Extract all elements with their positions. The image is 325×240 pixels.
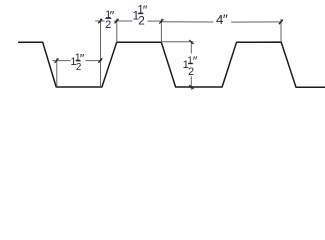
- top dimension line 1/2" segment: [95, 20, 104, 22]
- top dimension line between labels: [114, 20, 132, 22]
- tick at (116.8,21): [115, 19, 119, 24]
- extension line at x=161.4 (rib right corner): [160, 19, 162, 43]
- valley dimension line left stub: [52, 60, 70, 62]
- deck profile outline: [19, 42, 325, 87]
- svg-text:″: ″: [143, 2, 148, 17]
- extension line at x=116.8 (rib left corner): [116, 19, 118, 43]
- label A: 1/2 inch (top left dim): [105, 8, 115, 31]
- tick at (281,21.9): [279, 20, 283, 25]
- label C: 4 inch: [216, 11, 228, 27]
- vertical depth dimension line upper segment: [190, 42, 192, 54]
- tick at top of depth dim (191.3,42) backslash: [189, 40, 193, 44]
- extension line at x=281.0 (right rib right corner): [280, 19, 282, 42]
- label B: 1-1/2 inch (top dim): [133, 2, 148, 27]
- valley dimension line right stub: [86, 60, 102, 62]
- horizontal extension at rib top level to depth dim: [161, 41, 193, 43]
- tick at (100.4,21): [98, 19, 102, 24]
- label E: 1-1/2 inch (depth dim): [183, 54, 198, 78]
- tick at (161.5,21.3): [159, 19, 163, 24]
- 4" dimension line right segment: [231, 21, 282, 23]
- tick at (56.8,60.6): [55, 58, 59, 63]
- extension line at x=56.8 (valley1 left corner): [56, 58, 58, 87]
- tick at bottom of depth dim (191.3,87) backslash: [189, 85, 193, 89]
- svg-text:″: ″: [223, 11, 228, 27]
- 4" dimension line left segment: [161, 21, 213, 23]
- tick at (100.5,60.5): [98, 58, 102, 63]
- svg-text:″: ″: [193, 54, 198, 69]
- top dimension line 1-1/2" right segment: [148, 20, 162, 22]
- vertical depth dimension line lower segment: [190, 76, 192, 90]
- svg-text:″: ″: [80, 51, 85, 66]
- label D: 1-1/2 inch (valley bottom dim): [70, 51, 84, 73]
- extension line at x=100.5 (valley corner up to top dim): [100, 19, 102, 87]
- svg-text:″: ″: [110, 8, 115, 23]
